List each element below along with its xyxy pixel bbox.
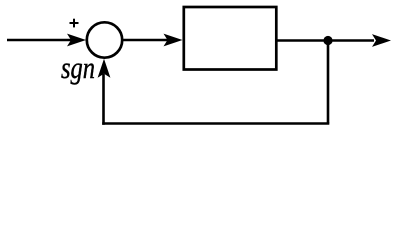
wire junction to block [124, 39, 169, 42]
wire feedback down [327, 41, 330, 124]
plus sign [70, 19, 79, 28]
wire input [7, 39, 72, 42]
svg-text:sgn: sgn [61, 50, 95, 85]
summing junction [87, 22, 122, 57]
arrowhead into block [164, 34, 183, 47]
arrowhead output [372, 34, 391, 47]
arrowhead input [67, 34, 86, 47]
node pickoff point [323, 36, 332, 45]
wire block to output [277, 39, 374, 42]
wire feedback bottom [102, 122, 329, 125]
arrowhead feedback into junction [98, 59, 111, 78]
block (relay/sign block) [184, 7, 276, 70]
wire feedback up [102, 74, 105, 125]
